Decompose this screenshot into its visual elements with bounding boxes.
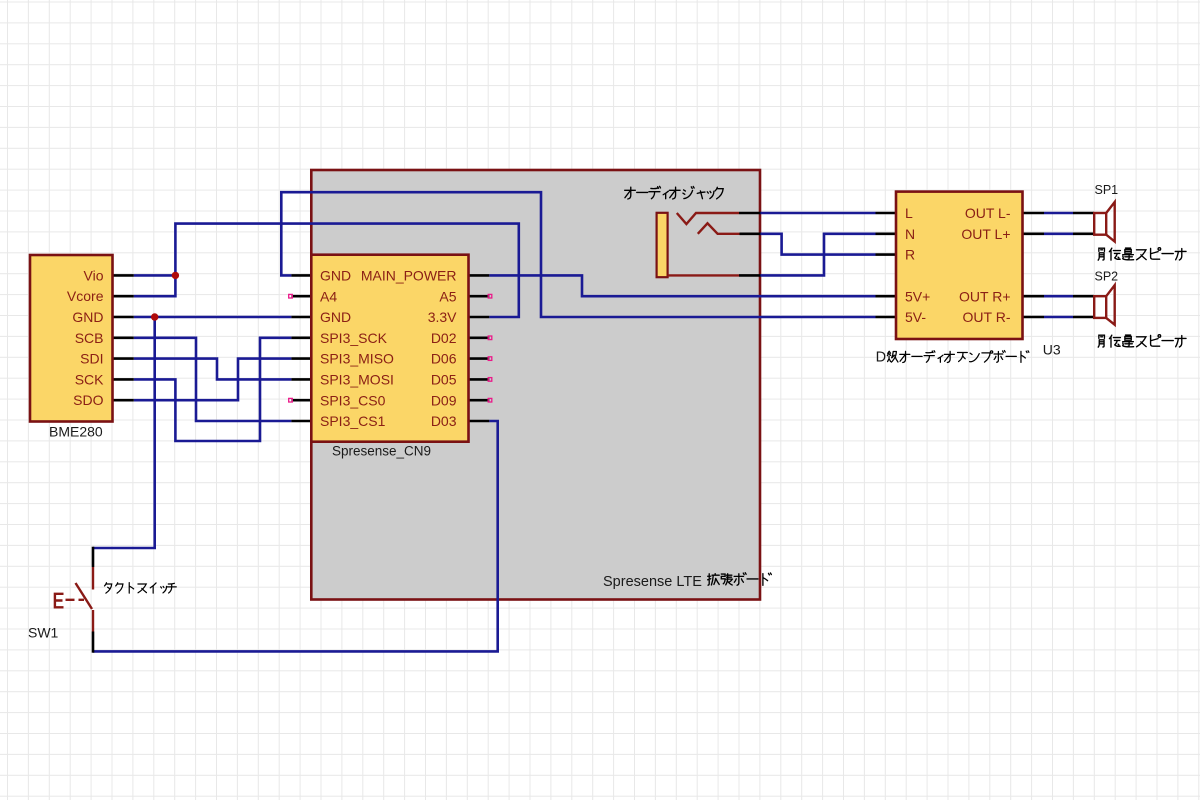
svg-text:D09: D09 xyxy=(431,392,457,408)
pin SW1 top stub xyxy=(92,547,95,567)
switch SW1 actuator E and dashes xyxy=(55,594,84,608)
svg-text:N: N xyxy=(905,226,915,242)
label extension board (kanji+katakana) xyxy=(708,574,720,586)
svg-text:D02: D02 xyxy=(431,330,457,346)
unconnected pin marker A5 xyxy=(488,294,492,298)
wire SCK to SPI3_SCK xyxy=(134,338,292,441)
label bone conduction speaker SP1 xyxy=(1098,248,1104,260)
svg-text:R: R xyxy=(905,247,915,263)
svg-text:OUT R-: OUT R- xyxy=(963,309,1011,325)
wire jack sleeve to N xyxy=(760,234,876,276)
svg-text:SP1: SP1 xyxy=(1095,183,1119,197)
audio jack tip contact xyxy=(677,213,739,224)
wire Vcore riser to 3.3V xyxy=(134,224,519,317)
wire OUT L+ to SP1 xyxy=(1044,233,1073,236)
audio jack sleeve contact xyxy=(668,274,739,276)
svg-text:SPI3_MISO: SPI3_MISO xyxy=(320,351,394,367)
wire OUT R- to SP2 xyxy=(1044,316,1073,319)
pins SP1 xyxy=(1073,213,1094,234)
pins amp board U3 left xyxy=(876,213,897,317)
svg-text:OUT L+: OUT L+ xyxy=(961,226,1010,242)
svg-text:SCB: SCB xyxy=(75,330,104,346)
wire jack ring to R xyxy=(760,234,876,255)
svg-text:SCK: SCK xyxy=(75,371,104,387)
svg-text:5V-: 5V- xyxy=(905,309,926,325)
wire CN9 GND pin1 over board to 5V- xyxy=(281,192,875,317)
label bone conduction speaker SP2 xyxy=(1098,335,1104,347)
svg-text:SP2: SP2 xyxy=(1095,269,1119,283)
audio jack ring contact xyxy=(698,223,740,234)
unconnected pin marker D09 xyxy=(488,398,492,402)
svg-text:GND: GND xyxy=(72,309,103,325)
wire GND down to switch SW1 xyxy=(93,317,155,548)
svg-text:SPI3_CS0: SPI3_CS0 xyxy=(320,392,386,408)
wire Vio to junction xyxy=(134,274,176,277)
svg-text:D06: D06 xyxy=(431,351,457,367)
svg-text:GND: GND xyxy=(320,268,351,284)
wire GND BME280 to CN9 xyxy=(134,316,292,319)
audio jack sleeve bar xyxy=(657,213,668,277)
svg-text:GND: GND xyxy=(320,309,351,325)
pins BME280 right side xyxy=(112,275,134,400)
pins SP2 xyxy=(1073,296,1094,317)
svg-text:BME280: BME280 xyxy=(49,424,103,440)
unconnected pin marker D05 xyxy=(488,378,492,382)
component Spresense_CN9 box xyxy=(311,255,468,442)
wire SDO to SPI3_MISO xyxy=(134,359,292,401)
unconnected pin marker D02 xyxy=(488,336,492,340)
speaker SP1 symbol xyxy=(1106,202,1115,242)
component U3 amp board box xyxy=(896,192,1023,339)
svg-text:OUT R+: OUT R+ xyxy=(959,288,1010,304)
label tact switch (katakana) xyxy=(104,583,111,593)
pins amp board U3 right xyxy=(1023,213,1045,317)
pins audio jack xyxy=(739,213,761,275)
svg-text:L: L xyxy=(905,205,913,221)
svg-text:SW1: SW1 xyxy=(28,625,59,641)
label audio jack (katakana) xyxy=(625,187,636,199)
wire D03 to switch SW1 xyxy=(93,421,498,651)
svg-text:U3: U3 xyxy=(1043,342,1061,358)
svg-text:SPI3_SCK: SPI3_SCK xyxy=(320,330,388,346)
svg-text:D05: D05 xyxy=(431,372,457,388)
pin SW1 bottom stub xyxy=(92,632,95,653)
wire MAIN_POWER to 5V+ xyxy=(489,275,875,296)
board U2 Spresense LTE extension board outline xyxy=(311,170,760,600)
svg-text:SPI3_MOSI: SPI3_MOSI xyxy=(320,372,394,388)
svg-text:MAIN_POWER: MAIN_POWER xyxy=(361,268,457,284)
svg-text:D03: D03 xyxy=(431,413,457,429)
svg-text:Spresense_CN9: Spresense_CN9 xyxy=(332,444,431,459)
svg-text:A4: A4 xyxy=(320,288,337,304)
wire jack tip to L xyxy=(760,212,876,215)
unconnected pin marker SPI3_CS0 xyxy=(289,398,293,402)
pins CN9 left side xyxy=(291,275,311,421)
component BME280 box xyxy=(30,255,113,422)
svg-text:SDO: SDO xyxy=(73,392,103,408)
wire SCB to SPI3_CS1 xyxy=(134,338,292,421)
svg-text:SPI3_CS1: SPI3_CS1 xyxy=(320,413,386,429)
junction on GND net xyxy=(151,313,158,320)
unconnected pin marker D06 xyxy=(488,357,492,361)
svg-text:5V+: 5V+ xyxy=(905,288,930,304)
svg-text:Vcore: Vcore xyxy=(67,288,104,304)
junction on Vio net xyxy=(172,272,179,279)
svg-text:Spresense LTE: Spresense LTE xyxy=(603,574,702,590)
unconnected pin marker A4 xyxy=(289,294,293,298)
wire OUT L- to SP1 xyxy=(1044,212,1073,215)
svg-text:D: D xyxy=(876,350,886,366)
pins CN9 right side xyxy=(469,275,490,421)
wire OUT R+ to SP2 xyxy=(1044,295,1073,298)
svg-text:OUT L-: OUT L- xyxy=(965,205,1011,221)
svg-text:3.3V: 3.3V xyxy=(428,309,457,325)
label D-class audio amp board (katakana) xyxy=(887,351,898,362)
speaker SP2 symbol xyxy=(1106,285,1115,325)
svg-text:SDI: SDI xyxy=(80,351,103,367)
svg-text:Vio: Vio xyxy=(84,267,104,283)
wire SDI to SPI3_MOSI xyxy=(134,359,292,380)
switch SW1 symbol xyxy=(76,567,94,632)
svg-text:A5: A5 xyxy=(439,288,456,304)
